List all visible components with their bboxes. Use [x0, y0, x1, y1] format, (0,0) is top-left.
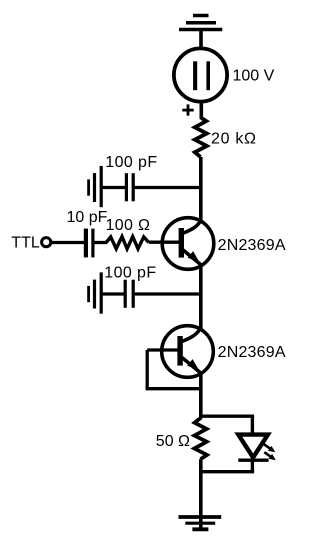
- capacitor C2 10 pF: [86, 229, 93, 258]
- wire ground to C1: [101, 186, 125, 189]
- ground (bypass C1): [89, 166, 102, 207]
- wire loop left leg: [146, 350, 149, 389]
- transistor Q1: [162, 218, 214, 270]
- wire branch top: [201, 415, 254, 418]
- LED D1: [238, 435, 268, 472]
- wire R3 to bottom branch: [199, 459, 203, 473]
- ground (bottom): [179, 517, 222, 529]
- svg-text:100 V: 100 V: [233, 68, 275, 85]
- transistor Q2: [162, 326, 214, 378]
- ground (bypass C3): [89, 272, 102, 313]
- wire to ground: [199, 472, 203, 530]
- wire Q2 emitter down: [199, 373, 203, 419]
- wire LED anode: [251, 416, 254, 436]
- voltage source V1: [174, 48, 227, 115]
- wire ground to C3: [101, 292, 124, 295]
- svg-text:20 kΩ: 20 kΩ: [211, 130, 257, 147]
- capacitor C1 100 pF: [126, 173, 133, 201]
- svg-text:TTL: TTL: [11, 234, 40, 251]
- wire C1 to node: [135, 186, 202, 189]
- wire source to resistor: [200, 100, 204, 119]
- wire branch bottom: [201, 470, 254, 473]
- wire Q1 emitter to Q2 collector: [199, 265, 203, 331]
- svg-text:10 pF: 10 pF: [67, 209, 108, 226]
- ground (top supply): [179, 16, 222, 30]
- svg-text:100 pF: 100 pF: [105, 154, 157, 171]
- wire Q2 base left: [147, 348, 181, 351]
- wire resistor to Q1 collector: [199, 157, 203, 222]
- capacitor C3 100 pF: [125, 280, 133, 308]
- svg-text:100 Ω: 100 Ω: [106, 217, 151, 234]
- LED light arrows: [263, 444, 275, 461]
- wire ground to source: [199, 30, 203, 51]
- TTL terminal: [42, 238, 51, 247]
- resistor R1 20 kΩ: [195, 117, 207, 157]
- wire terminal to C2: [51, 241, 85, 244]
- wire loop bottom: [146, 387, 202, 390]
- svg-text:2N2369A: 2N2369A: [218, 344, 286, 361]
- resistor R2 100 Ω: [106, 237, 149, 249]
- resistor R3 50 Ω: [194, 418, 207, 460]
- svg-text:2N2369A: 2N2369A: [218, 237, 286, 254]
- wire C3 to node: [135, 292, 202, 295]
- svg-text:100 pF: 100 pF: [104, 264, 156, 281]
- wire C2 to R2: [94, 241, 107, 244]
- wire R2 to Q1 base: [149, 241, 181, 244]
- svg-text:50 Ω: 50 Ω: [156, 433, 190, 450]
